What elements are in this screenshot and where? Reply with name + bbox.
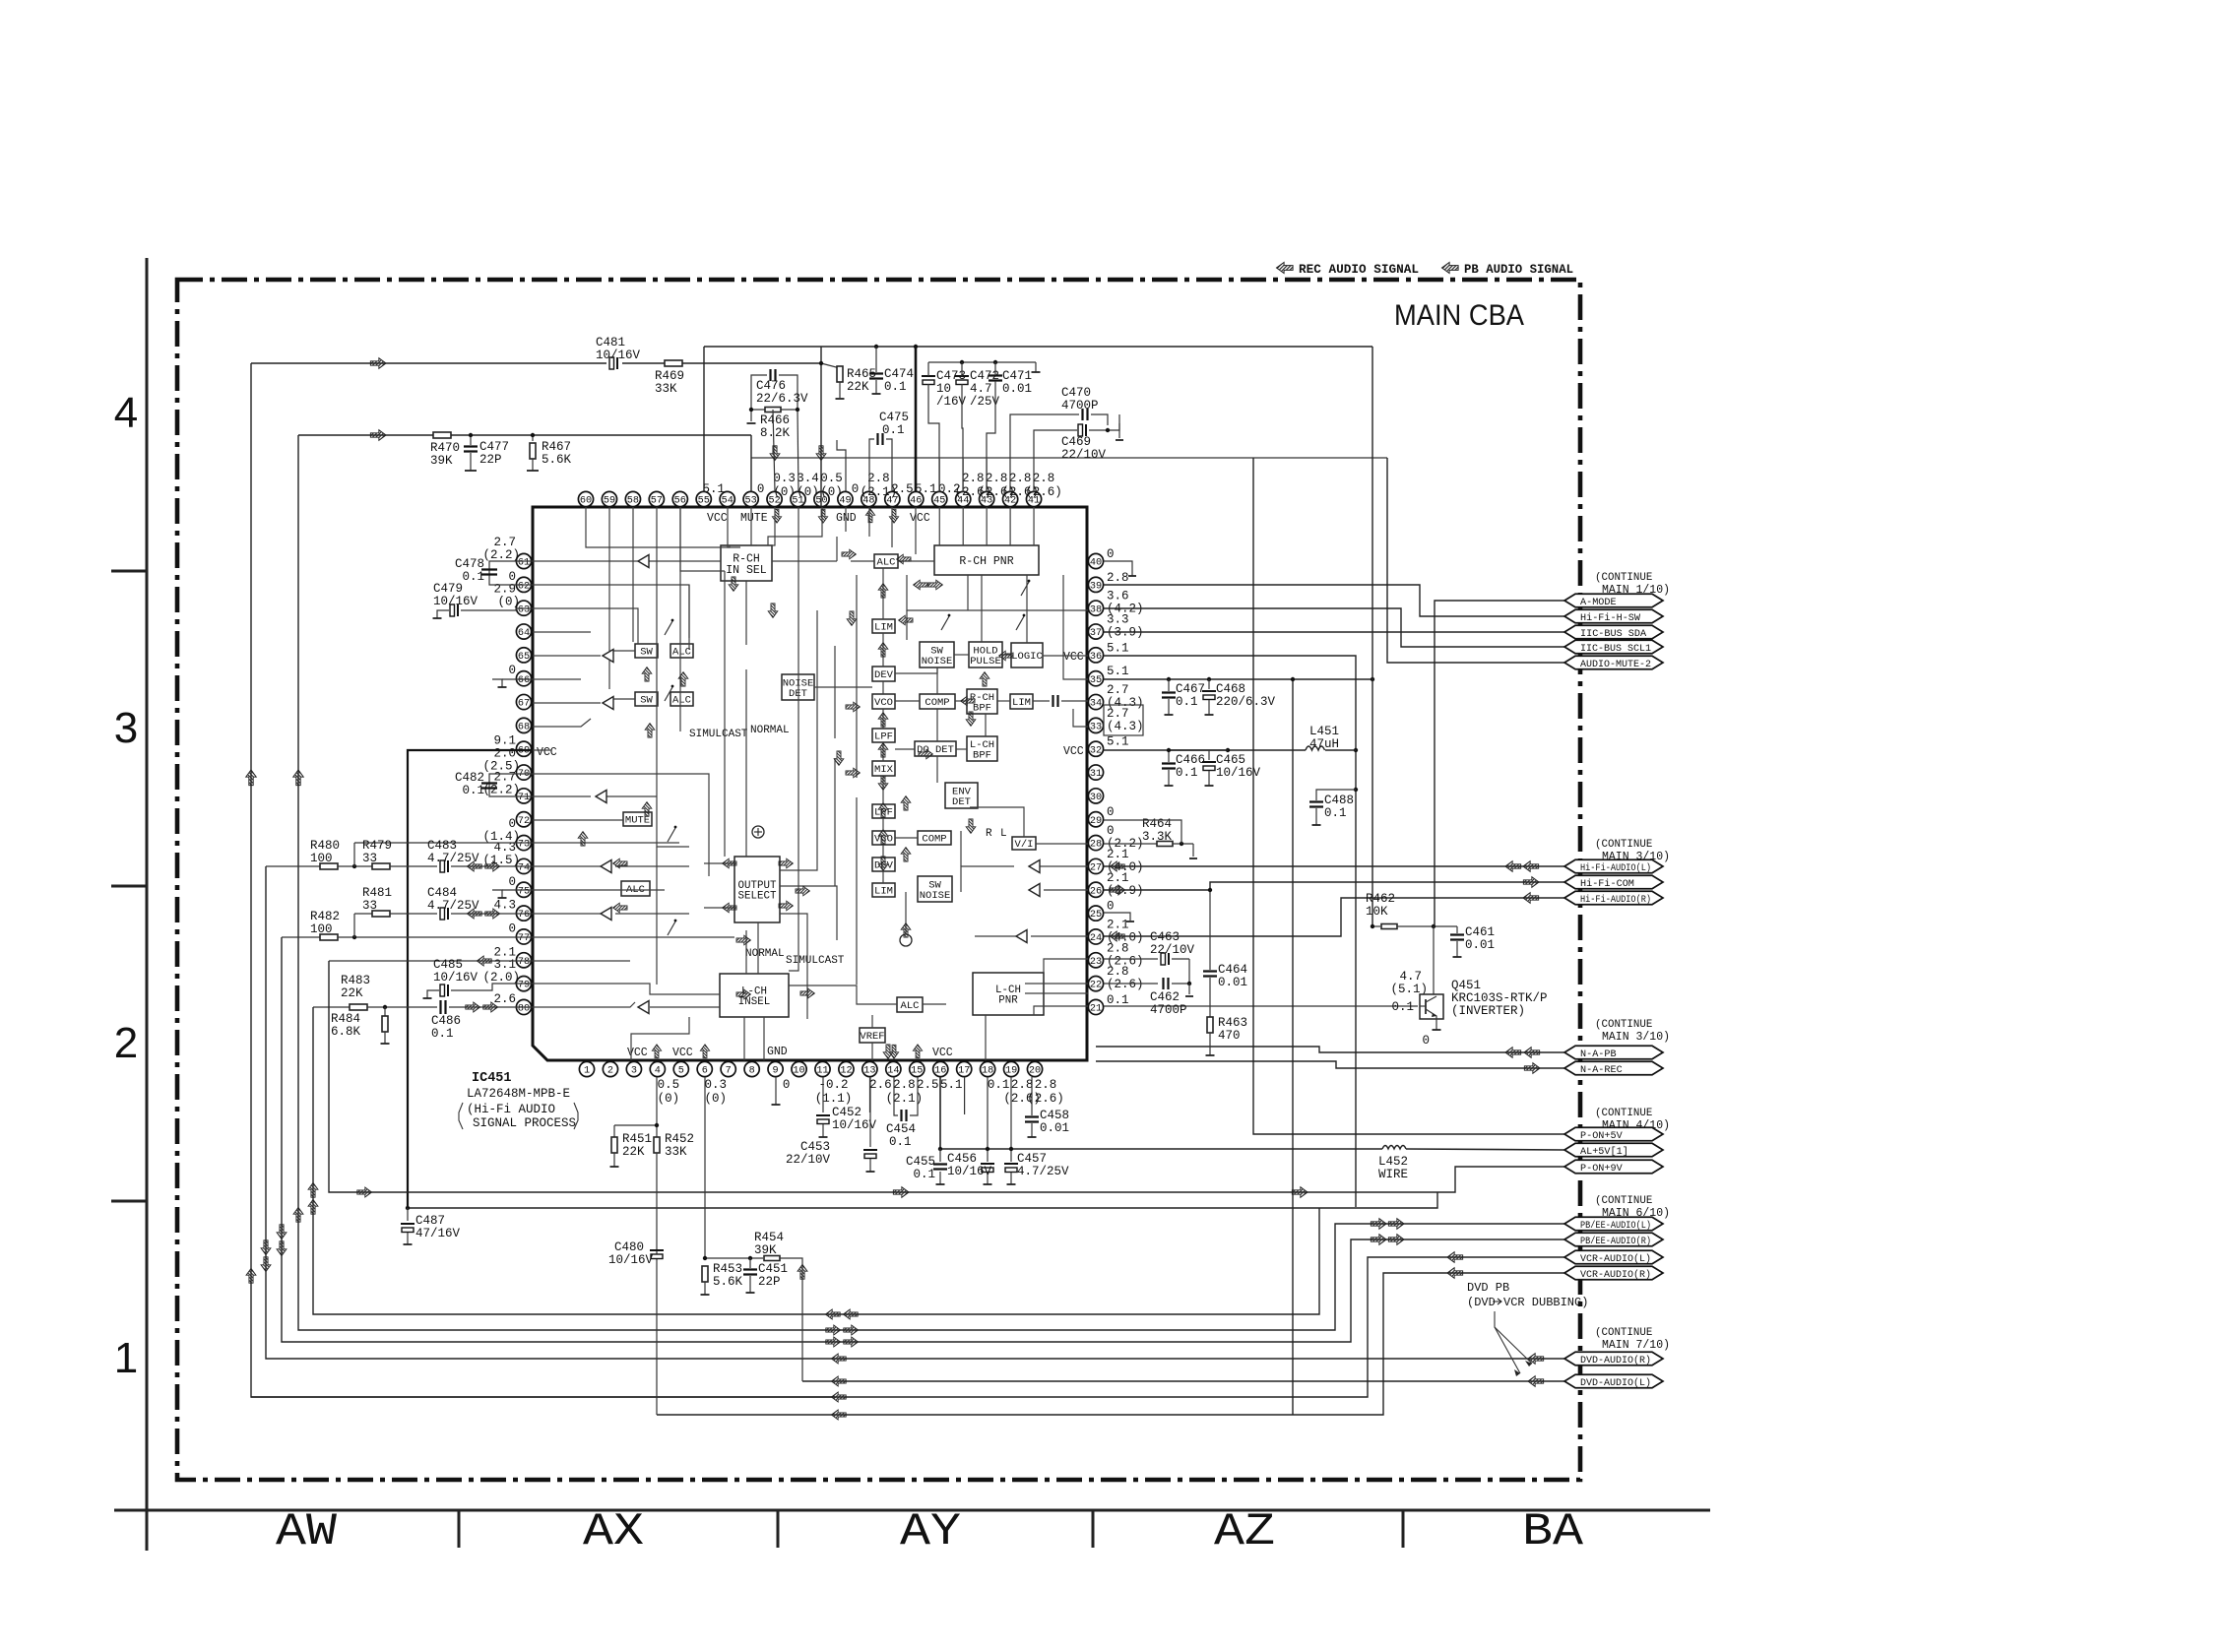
svg-text:5.1: 5.1 (1107, 641, 1129, 655)
svg-text:P-ON+5V: P-ON+5V (1580, 1131, 1623, 1142)
svg-text:VCC: VCC (537, 746, 557, 759)
svg-text:5: 5 (678, 1066, 684, 1077)
svg-text:33: 33 (362, 899, 377, 913)
svg-text:R463: R463 (1218, 1016, 1247, 1030)
row pin77: R482 (282, 936, 320, 938)
svg-text:REC AUDIO SIGNAL: REC AUDIO SIGNAL (1299, 262, 1419, 277)
svg-text:29: 29 (1090, 816, 1102, 827)
svg-text:100: 100 (310, 852, 333, 865)
wire fan vertical x=318 (313, 1007, 1319, 1314)
svg-text:10: 10 (793, 1066, 804, 1077)
block R-CH PNR (934, 545, 1039, 575)
ground hook pin75 (492, 890, 502, 898)
svg-text:2.7: 2.7 (493, 536, 516, 549)
svg-text:DVD-AUDIO(L): DVD-AUDIO(L) (1580, 1377, 1651, 1389)
vertical x=1394 from rail352 (1372, 347, 1373, 926)
svg-text:LOGIC: LOGIC (1011, 651, 1043, 663)
block LIM 1 (872, 619, 895, 633)
svg-text:(CONTINUE: (CONTINUE (1595, 1195, 1652, 1207)
capacitor C476 / resistor R466 loop (751, 375, 767, 410)
svg-text:R453: R453 (713, 1262, 742, 1276)
row pin78 (329, 960, 533, 962)
svg-text:78: 78 (518, 957, 530, 968)
svg-text:33K: 33K (655, 382, 677, 396)
svg-text:AZ: AZ (1214, 1506, 1275, 1557)
block V/I (1012, 837, 1036, 850)
svg-text:0: 0 (757, 482, 765, 496)
svg-text:10/16V: 10/16V (433, 971, 478, 985)
svg-text:AW: AW (276, 1506, 337, 1557)
svg-text:22/10V: 22/10V (1150, 943, 1195, 957)
svg-text:0.5: 0.5 (820, 472, 843, 485)
svg-text:20: 20 (1029, 1066, 1041, 1077)
svg-text:58: 58 (627, 496, 639, 507)
capacitor C461 (1456, 926, 1458, 933)
svg-text:4700P: 4700P (1061, 399, 1099, 413)
svg-text:C454: C454 (886, 1122, 916, 1136)
svg-text:VCC: VCC (672, 1047, 693, 1059)
wire pin39 to Hi-Fi-H-SW (1104, 585, 1564, 616)
svg-text:4.7/25V: 4.7/25V (1017, 1165, 1069, 1178)
svg-text:C470: C470 (1061, 386, 1091, 400)
border ruler left (146, 258, 149, 1551)
svg-text:5.1: 5.1 (1107, 665, 1129, 678)
GND pin9 stub (775, 1077, 777, 1105)
svg-text:62: 62 (518, 581, 530, 592)
svg-text:2: 2 (114, 1019, 138, 1067)
wire N-A-REC (1096, 1061, 1564, 1068)
svg-text:21: 21 (1090, 1004, 1102, 1015)
svg-text:C462: C462 (1150, 990, 1180, 1004)
block ALC 1 (670, 644, 693, 658)
block SW 2 (635, 692, 658, 706)
svg-text:67: 67 (518, 699, 530, 710)
capacitor C481 (609, 357, 614, 369)
flag Hi-Fi-COM (1564, 875, 1663, 889)
svg-text:0: 0 (508, 664, 516, 677)
svg-text:R451: R451 (622, 1132, 652, 1146)
IC right pins 40-21 (1088, 553, 1103, 568)
svg-text:C463: C463 (1150, 930, 1180, 944)
svg-text:17: 17 (958, 1066, 970, 1077)
block MIX (872, 761, 895, 776)
svg-text:C487: C487 (415, 1214, 445, 1228)
svg-text:3.6: 3.6 (1107, 590, 1129, 604)
resistor R453 (702, 1266, 708, 1282)
svg-text:4.7: 4.7 (1399, 970, 1422, 984)
svg-text:24: 24 (1090, 933, 1102, 944)
resistor R463 (1207, 1017, 1213, 1033)
capacitor C474 (875, 347, 877, 372)
amp triangles (638, 555, 649, 568)
svg-text:P-ON+9V: P-ON+9V (1580, 1164, 1623, 1175)
svg-text:(0): (0) (497, 596, 520, 609)
block COMP 1 (920, 694, 955, 709)
svg-text:PB/EE-AUDIO(R): PB/EE-AUDIO(R) (1580, 1236, 1651, 1247)
svg-text:32: 32 (1090, 745, 1102, 756)
svg-text:2.8: 2.8 (1035, 1078, 1057, 1092)
svg-text:C455: C455 (906, 1155, 935, 1169)
svg-text:(0): (0) (820, 485, 843, 499)
svg-text:R469: R469 (655, 369, 684, 383)
flag VCR-AUDIO(R) (1564, 1266, 1663, 1280)
svg-text:10/16V: 10/16V (947, 1165, 992, 1178)
svg-text:AL+5V[1]: AL+5V[1] (1580, 1146, 1628, 1158)
svg-text:9: 9 (773, 1066, 779, 1077)
svg-text:R464: R464 (1142, 817, 1172, 831)
capacitor C471 (989, 376, 1002, 381)
svg-text:R479: R479 (362, 839, 392, 853)
svg-text:SELECT: SELECT (738, 891, 777, 903)
resistor R452 (656, 1077, 658, 1137)
vertical x=1273 P-ON+5V (1253, 458, 1564, 1134)
svg-text:Hi-Fi-AUDIO(L): Hi-Fi-AUDIO(L) (1580, 862, 1651, 874)
svg-text:C465: C465 (1216, 753, 1245, 767)
pin 40 stub (1104, 561, 1132, 576)
svg-text:VCR DUBBING): VCR DUBBING) (1503, 1296, 1588, 1309)
wire top rail 3 (y=442) (298, 434, 433, 436)
svg-text:AY: AY (900, 1506, 961, 1557)
svg-text:22P: 22P (758, 1275, 781, 1289)
arrow into rail1 (370, 358, 386, 369)
svg-text:66: 66 (518, 675, 530, 686)
svg-text:MIX: MIX (874, 764, 894, 776)
svg-text:10/16V: 10/16V (608, 1253, 654, 1267)
flag Hi-Fi-AUDIO(L) (1564, 859, 1663, 873)
arrows near flags bottom group (1371, 1219, 1386, 1230)
svg-text:C480: C480 (614, 1240, 644, 1254)
capacitor C466 (1168, 750, 1170, 762)
svg-text:VCC: VCC (932, 1047, 953, 1059)
svg-text:C461: C461 (1465, 925, 1495, 939)
svg-text:3.1: 3.1 (493, 958, 516, 972)
svg-text:2.5: 2.5 (917, 1078, 939, 1092)
svg-text:2.8: 2.8 (1107, 965, 1129, 979)
wire fan vertical x=270 (266, 866, 1564, 1359)
svg-text:5.1: 5.1 (702, 482, 725, 496)
svg-text:39K: 39K (754, 1243, 777, 1257)
svg-text:4: 4 (655, 1066, 661, 1077)
svg-text:NORMAL: NORMAL (750, 725, 790, 736)
resistor R467 (532, 435, 534, 441)
svg-text:R: R (986, 828, 992, 840)
svg-text:0.01: 0.01 (1040, 1121, 1069, 1135)
svg-text:PNR: PNR (998, 995, 1018, 1007)
wire top rail 2 (y=352) (704, 346, 1372, 348)
svg-text:Hi-Fi-COM: Hi-Fi-COM (1580, 878, 1634, 890)
svg-text:56: 56 (674, 496, 686, 507)
wire label rail y=465 (751, 457, 1387, 459)
svg-text:80: 80 (518, 1004, 530, 1015)
svg-text:(CONTINUE: (CONTINUE (1595, 1019, 1652, 1031)
block DO DET (915, 741, 956, 756)
svg-text:2.1: 2.1 (1107, 871, 1129, 885)
svg-text:22: 22 (1090, 981, 1102, 991)
svg-text:22K: 22K (341, 986, 363, 1000)
svg-text:1: 1 (584, 1066, 590, 1077)
svg-text:0: 0 (783, 1078, 791, 1092)
capacitor C462 (1104, 983, 1158, 985)
block ALC 3 (621, 881, 650, 896)
svg-text:0.1: 0.1 (1107, 993, 1129, 1007)
wire N-A-PB (1096, 1047, 1564, 1052)
block ENV DET (945, 783, 978, 808)
svg-text:IC451: IC451 (472, 1071, 512, 1086)
block LPF 2 (872, 804, 895, 818)
capacitor C455 (939, 1149, 941, 1162)
vertical x=1409 AUDIO-MUTE-2 (1387, 458, 1564, 663)
svg-text:2.8: 2.8 (893, 1078, 916, 1092)
svg-text:10K: 10K (1366, 905, 1388, 919)
capacitor C468 (1208, 679, 1210, 689)
block L-CH INSEL (720, 974, 789, 1017)
svg-text:0.01: 0.01 (1465, 938, 1495, 952)
svg-text:2.6: 2.6 (869, 1078, 892, 1092)
svg-text:0: 0 (852, 482, 860, 496)
svg-text:10/16V: 10/16V (596, 349, 641, 362)
svg-text:77: 77 (518, 933, 530, 944)
svg-text:IIC-BUS SDA: IIC-BUS SDA (1580, 629, 1646, 640)
svg-text:(CONTINUE: (CONTINUE (1595, 839, 1652, 851)
svg-text:R466: R466 (760, 413, 790, 427)
flag PB/EE-AUDIO(R) (1564, 1233, 1663, 1246)
svg-text:BPF: BPF (973, 702, 991, 714)
internal hatched arrows (642, 667, 652, 681)
svg-text:7: 7 (726, 1066, 732, 1077)
capacitor C487 (407, 1208, 409, 1221)
up arrows on verticals (246, 770, 257, 786)
svg-text:C486: C486 (431, 1014, 461, 1028)
svg-text:Q451: Q451 (1451, 979, 1481, 992)
svg-text:0.01: 0.01 (1218, 976, 1247, 989)
svg-text:R480: R480 (310, 839, 340, 853)
VCC rail from pin69 (408, 750, 533, 1208)
long vertical wire B x=303 (298, 435, 1564, 1330)
svg-text:PB/EE-AUDIO(L): PB/EE-AUDIO(L) (1580, 1220, 1651, 1232)
svg-text:2: 2 (607, 1066, 613, 1077)
capacitor C465 (1208, 750, 1210, 760)
svg-text:COMP: COMP (922, 834, 946, 846)
svg-text:L: L (1000, 828, 1007, 840)
svg-text:VCC: VCC (1063, 745, 1084, 758)
svg-text:(1.1): (1.1) (815, 1092, 853, 1106)
block LOGIC (1011, 643, 1043, 667)
svg-text:(2.6): (2.6) (1027, 1092, 1064, 1106)
svg-text:2.7: 2.7 (493, 770, 516, 784)
long vertical wire A x=255 (251, 363, 835, 1397)
svg-text:30: 30 (1090, 793, 1102, 803)
svg-text:GND: GND (767, 1046, 788, 1058)
wire pin36 rail to 1377 (1104, 656, 1356, 1207)
grey top rail caps C473 C472 C471 (928, 361, 1036, 363)
svg-text:4700P: 4700P (1150, 1003, 1187, 1017)
svg-text:(2.0): (2.0) (482, 971, 520, 985)
svg-text:1: 1 (114, 1334, 138, 1382)
svg-text:16: 16 (934, 1066, 946, 1077)
svg-text:6: 6 (702, 1066, 708, 1077)
svg-text:38: 38 (1090, 604, 1102, 615)
flag DVD-AUDIO(L) (1564, 1374, 1663, 1388)
svg-text:23: 23 (1090, 957, 1102, 968)
svg-text:C466: C466 (1176, 753, 1205, 767)
svg-text:C482: C482 (455, 771, 484, 785)
svg-text:NOISE: NOISE (922, 656, 953, 667)
svg-text:ALC: ALC (901, 1000, 920, 1012)
svg-text:470: 470 (1218, 1029, 1241, 1043)
block ALC top (874, 554, 898, 568)
svg-text:2.8: 2.8 (1107, 941, 1129, 955)
resistor R465 (821, 363, 840, 368)
svg-text:R484: R484 (331, 1012, 360, 1026)
svg-text:27: 27 (1090, 863, 1102, 874)
svg-text:C469: C469 (1061, 435, 1091, 449)
svg-text:0: 0 (508, 817, 516, 831)
svg-text:R470: R470 (430, 441, 460, 455)
block LPF 1 (872, 729, 895, 742)
svg-text:11: 11 (816, 1066, 828, 1077)
svg-text:C479: C479 (433, 582, 463, 596)
capacitor C488 (1316, 790, 1356, 800)
svg-text:C484: C484 (427, 886, 457, 900)
svg-text:76: 76 (518, 910, 530, 921)
block L-CH BPF (967, 736, 997, 761)
capacitor C473 (922, 375, 935, 377)
svg-text:L452: L452 (1378, 1155, 1408, 1169)
legend REC AUDIO SIGNAL (1276, 262, 1293, 273)
svg-text:0.5: 0.5 (658, 1078, 680, 1092)
bracket around pin33 label (1104, 705, 1143, 735)
svg-text:LIM: LIM (874, 886, 893, 898)
svg-text:3.3: 3.3 (1107, 613, 1129, 627)
svg-text:2.8: 2.8 (1033, 472, 1055, 485)
svg-text:C468: C468 (1216, 682, 1245, 696)
svg-text:C483: C483 (427, 839, 457, 853)
svg-text:(0): (0) (658, 1092, 680, 1106)
block VCO 1 (872, 694, 895, 709)
svg-text:3.4: 3.4 (797, 472, 819, 485)
flag PB/EE-AUDIO(L) (1564, 1217, 1663, 1231)
wire row 1419 to VCR-AUDIO(L) (835, 1257, 1564, 1397)
block COMP 2 (918, 831, 951, 845)
svg-text:60: 60 (580, 496, 592, 507)
svg-text:15: 15 (911, 1066, 923, 1077)
block R-CH BPF (967, 689, 997, 714)
capacitor C467 (1168, 679, 1170, 691)
svg-text:0.01: 0.01 (1002, 382, 1032, 396)
wire pin24 to Hi-Fi-AUDIO(R) (1104, 898, 1564, 936)
flag IIC-BUS SDA (1564, 625, 1663, 639)
svg-text:22K: 22K (622, 1145, 645, 1159)
svg-text:ALC: ALC (672, 647, 691, 659)
svg-text:C452: C452 (832, 1106, 861, 1119)
svg-text:4: 4 (114, 389, 138, 437)
svg-text:39K: 39K (430, 454, 453, 468)
svg-text:BA: BA (1522, 1506, 1583, 1557)
svg-text:BPF: BPF (973, 749, 991, 761)
flag IIC-BUS SCL1 (1564, 640, 1663, 654)
svg-text:DEV: DEV (874, 669, 894, 681)
svg-text:6.8K: 6.8K (331, 1025, 361, 1039)
svg-text:40: 40 (1090, 558, 1102, 569)
capacitor C480 (650, 1249, 664, 1251)
svg-text:VCC: VCC (910, 512, 930, 525)
svg-text:MAIN CBA: MAIN CBA (1394, 299, 1524, 332)
svg-text:INSEL: INSEL (738, 996, 770, 1008)
svg-text:MAIN 7/10): MAIN 7/10) (1602, 1339, 1670, 1352)
svg-text:10/16V: 10/16V (433, 595, 478, 608)
svg-text:R483: R483 (341, 974, 370, 987)
block ALC 2 (670, 692, 693, 706)
svg-text:36: 36 (1090, 652, 1102, 663)
legend PB AUDIO SIGNAL (1441, 262, 1458, 273)
svg-text:22K: 22K (847, 380, 869, 394)
svg-text:26: 26 (1090, 886, 1102, 897)
svg-text:R467: R467 (542, 440, 571, 454)
svg-text:(Hi-Fi AUDIO: (Hi-Fi AUDIO (467, 1103, 555, 1116)
inductor L452 (1382, 1146, 1406, 1150)
wire row 1437 to VCR-AUDIO(R) (657, 1273, 1564, 1415)
capacitor C458 (1031, 1077, 1033, 1115)
svg-text:220/6.3V: 220/6.3V (1216, 695, 1276, 709)
svg-text:25: 25 (1090, 910, 1102, 921)
wire pin32 rail with L451 (1104, 749, 1306, 751)
capacitor C452 (822, 1077, 824, 1112)
IC top pins 60-41 (578, 491, 593, 506)
wire pin38 to IIC-BUS SCL1 (1104, 608, 1564, 647)
svg-text:10: 10 (936, 382, 951, 396)
svg-text:0.1: 0.1 (1176, 766, 1198, 780)
svg-text:AX: AX (583, 1506, 644, 1557)
resistor R484 (384, 1007, 386, 1016)
svg-text:0.3: 0.3 (773, 472, 796, 485)
svg-text:4.7: 4.7 (970, 382, 992, 396)
svg-text:KRC103S-RTK/P: KRC103S-RTK/P (1451, 991, 1548, 1005)
svg-text:(CONTINUE: (CONTINUE (1595, 1108, 1652, 1119)
svg-text:SIMULCAST: SIMULCAST (786, 955, 845, 967)
flag P-ON+9V (1564, 1160, 1663, 1174)
capacitor C453 (869, 1077, 871, 1147)
resistor R469 (665, 360, 682, 366)
svg-text:A-MODE: A-MODE (1580, 598, 1617, 608)
wire fan vertical x=334 (329, 961, 1564, 1192)
op-amp IC U451 body LA72648M (533, 507, 1087, 1060)
wire pin27 row to Hi-Fi-AUDIO(L) (1104, 865, 1564, 867)
resistor R451 (613, 1125, 615, 1137)
flag Hi-Fi-AUDIO(R) (1564, 891, 1663, 905)
svg-text:(0): (0) (704, 1092, 727, 1106)
svg-text:VCR-AUDIO(L): VCR-AUDIO(L) (1580, 1253, 1651, 1265)
svg-text:0: 0 (1107, 547, 1115, 561)
svg-text:SIGNAL PROCESS: SIGNAL PROCESS (473, 1116, 576, 1130)
wire top rail 1 (y=369) (251, 362, 606, 364)
flag N-A-REC (1564, 1061, 1663, 1075)
svg-text:C467: C467 (1176, 682, 1205, 696)
svg-text:0.3: 0.3 (704, 1078, 727, 1092)
svg-text:VCC: VCC (707, 512, 728, 525)
block MUTE (623, 812, 652, 826)
svg-text:22/10V: 22/10V (786, 1153, 831, 1167)
block VCO 2 (872, 831, 895, 845)
svg-text:(2.6): (2.6) (1107, 978, 1144, 991)
svg-text:VCR-AUDIO(R): VCR-AUDIO(R) (1580, 1269, 1651, 1281)
flag DVD-AUDIO(R) (1564, 1352, 1663, 1366)
svg-text:Hi-Fi-H-SW: Hi-Fi-H-SW (1580, 612, 1640, 624)
svg-text:R481: R481 (362, 886, 392, 900)
IC bottom pins 1-20 (579, 1061, 594, 1076)
svg-text:(4.3): (4.3) (1107, 720, 1144, 733)
svg-text:(DVD: (DVD (1467, 1296, 1496, 1309)
svg-text:2.8: 2.8 (1107, 571, 1129, 585)
